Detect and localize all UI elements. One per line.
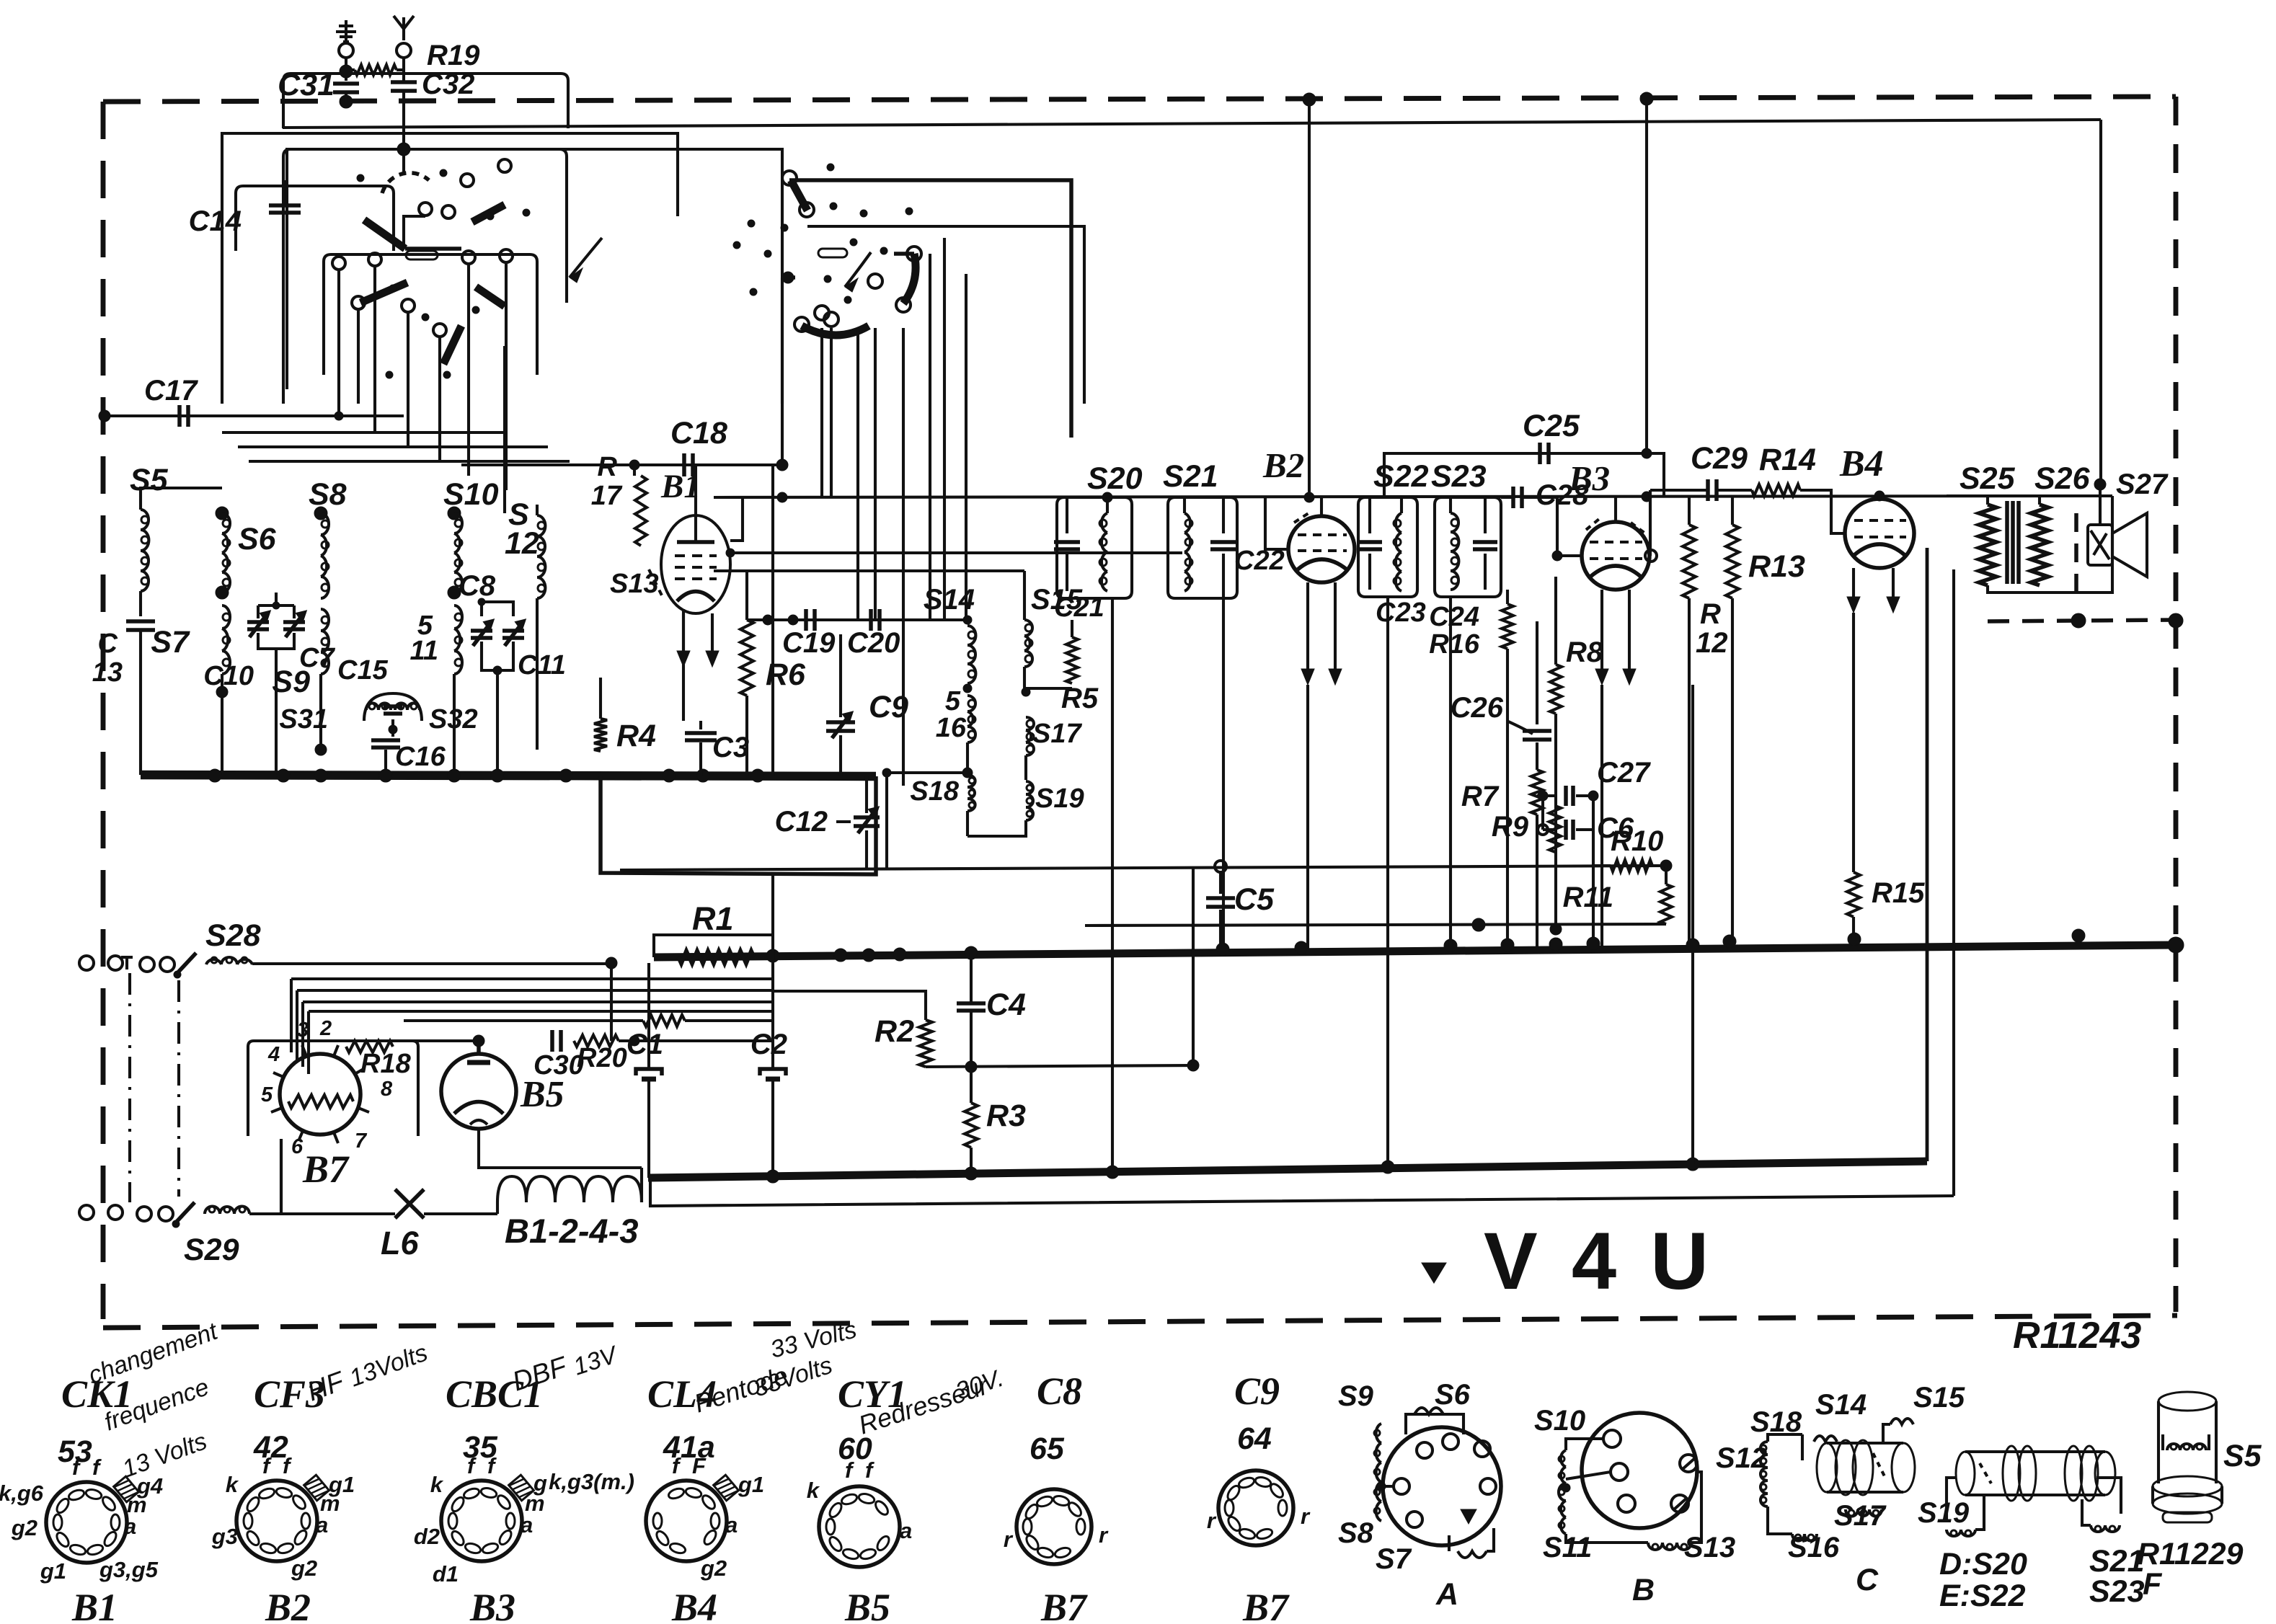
- svg-text:C9: C9: [1234, 1370, 1280, 1413]
- svg-text:8: 8: [381, 1078, 393, 1101]
- switch 2 left stub: [782, 275, 795, 280]
- coil S15: [1025, 624, 1032, 631]
- junction: [448, 769, 461, 782]
- resistor R18: [346, 1041, 393, 1052]
- capacitor C30: [550, 1030, 554, 1052]
- svg-text:C20: C20: [847, 627, 900, 659]
- svg-text:d2: d2: [414, 1524, 440, 1549]
- trimmer C12: [854, 815, 880, 820]
- wire grid bias row: [663, 980, 773, 1002]
- B2 top dashes: [1294, 513, 1309, 523]
- wire y645 with C18: [461, 463, 782, 466]
- svg-text:a: a: [124, 1514, 136, 1539]
- svg-text:B: B: [1632, 1573, 1655, 1607]
- svg-text:B7: B7: [302, 1148, 350, 1191]
- antenna symbol: [402, 17, 405, 40]
- svg-text:V 4 U: V 4 U: [1484, 1216, 1714, 1306]
- R1 bypass corner: [654, 935, 773, 957]
- svg-text:R16: R16: [1429, 629, 1480, 660]
- wire S21 bottom to B2 grid: [1185, 548, 1265, 598]
- assembly D cylinder: [1956, 1452, 1975, 1495]
- capacitor C24: [1473, 540, 1497, 544]
- coil S5: [139, 497, 142, 510]
- resistor R10: [1611, 860, 1652, 871]
- switch 1 wafer B blades: [360, 283, 407, 303]
- coil S21: [1183, 497, 1186, 513]
- wire R14 to B4 grid: [1800, 490, 1846, 533]
- B3 diag dashes: [1586, 519, 1599, 530]
- bus step down rectangle: [601, 776, 876, 874]
- rotary switch wafer frame: [283, 149, 567, 404]
- svg-text:C11: C11: [518, 650, 566, 680]
- capacitor C5: [1219, 872, 1222, 894]
- svg-text:F: F: [692, 1453, 707, 1478]
- svg-text:R10: R10: [1611, 825, 1663, 857]
- wire bundle right verticals: [610, 964, 613, 1041]
- svg-text:S10: S10: [1534, 1405, 1585, 1437]
- svg-text:g2: g2: [700, 1556, 727, 1581]
- svg-text:R11243: R11243: [2013, 1315, 2141, 1357]
- coil S28: [211, 957, 217, 963]
- junction dot at C31 top: [340, 65, 353, 78]
- svg-text:S6: S6: [1435, 1379, 1471, 1411]
- B7 internal heater zigzag: [288, 1095, 353, 1108]
- assembly D left coil hang: [1947, 1478, 1957, 1519]
- junction: [696, 769, 709, 782]
- resistor R3: [965, 1103, 978, 1148]
- switch 1 rotor arc: [382, 173, 429, 193]
- coil S14: [963, 616, 972, 624]
- capacitor C19: [804, 609, 808, 631]
- wire switch outputs to coil rows: [337, 404, 340, 416]
- svg-text:S6: S6: [238, 522, 277, 556]
- S21 box: [1168, 497, 1237, 598]
- wire antenna terminal to C32: [402, 58, 405, 82]
- svg-text:C15: C15: [337, 655, 389, 685]
- tube B1 pentode: [661, 515, 730, 613]
- capacitor C18: [682, 453, 686, 476]
- coil S20: [1106, 497, 1109, 513]
- wire y792 B1 grid2: [714, 569, 1024, 572]
- wire y1336 to right: [252, 962, 1954, 964]
- svg-text:41a: 41a: [663, 1430, 715, 1465]
- svg-text:S20: S20: [1087, 461, 1143, 496]
- assembly B left coil: [1559, 1456, 1564, 1462]
- svg-text:B7: B7: [1040, 1586, 1088, 1624]
- assembly D dashes: [1980, 1463, 1991, 1483]
- dashed chassis border left: [101, 102, 106, 1319]
- svg-text:2: 2: [319, 1017, 332, 1040]
- svg-text:C8: C8: [1037, 1370, 1082, 1413]
- capacitor C16: [371, 738, 400, 742]
- junction dot C31 bottom on dashed border: [340, 95, 353, 108]
- B7 socket frame: [248, 1041, 418, 1136]
- resistor R12: [1688, 497, 1691, 525]
- svg-text:g2: g2: [11, 1515, 37, 1540]
- resistor R1: [678, 951, 754, 964]
- wire S18 feed: [902, 771, 905, 786]
- assembly C cylinder body: [1817, 1443, 1837, 1492]
- wire R5 S15 bottom join: [1024, 667, 1072, 688]
- dashed chassis border top: [103, 97, 2176, 102]
- bus end dot right: [2168, 937, 2184, 953]
- resistor R2: [919, 1020, 932, 1067]
- resistor R17: [633, 465, 636, 476]
- thick ground bus upper: [141, 775, 876, 776]
- trimmer C7: [283, 620, 305, 624]
- second resistor row y1416: [643, 1015, 685, 1026]
- L6 X symbol: [395, 1189, 424, 1218]
- pointer triangle below border: [1422, 1263, 1446, 1283]
- svg-text:R13: R13: [1748, 549, 1805, 584]
- svg-text:B4: B4: [1839, 443, 1884, 484]
- vertical from top border x2284: [1645, 99, 1648, 453]
- wire ground terminal to C31: [345, 58, 347, 81]
- speaker: [2088, 525, 2112, 565]
- svg-text:R: R: [598, 452, 618, 482]
- trimmer C10 arrow pair: [247, 620, 269, 624]
- transformer bottom wires: [1988, 496, 2112, 593]
- B4 cathode arrows: [1852, 568, 1855, 601]
- svg-text:r: r: [1004, 1527, 1014, 1552]
- svg-text:a: a: [725, 1512, 738, 1538]
- wire S9 bottom: [319, 692, 322, 750]
- switch 1 arrow: [570, 238, 602, 278]
- wire antenna down into switch: [402, 91, 405, 173]
- junction: [208, 769, 221, 782]
- capacitor C25: [1538, 443, 1542, 464]
- svg-text:S29: S29: [184, 1233, 239, 1267]
- transformer top frame: [1947, 494, 2112, 497]
- capacitor C31: [333, 81, 359, 86]
- svg-text:B1-2-4-3: B1-2-4-3: [505, 1212, 638, 1250]
- svg-text:R11: R11: [1563, 882, 1613, 913]
- wire y1282: [1085, 924, 1666, 926]
- svg-text:S31: S31: [279, 704, 328, 735]
- coil S12: [536, 505, 539, 515]
- switch 1 upper wafer box: [236, 186, 394, 251]
- tube B3: [1582, 522, 1650, 590]
- coil S23: [1449, 497, 1452, 513]
- capacitor C2 electrolytic: [760, 1069, 786, 1075]
- svg-text:R9: R9: [1492, 811, 1529, 843]
- switch 1 wafer B outline: [324, 254, 537, 375]
- resistor R9: [1549, 806, 1561, 852]
- assembly A pins: [1417, 1442, 1433, 1458]
- wire nest y205: [287, 149, 782, 465]
- bus junctions: [766, 949, 779, 962]
- wire B7 frame bottom to L6: [281, 1139, 497, 1214]
- thick bus B+ R1 line: [654, 945, 2176, 957]
- assembly A wires: [1381, 1485, 1394, 1488]
- wire R2 bottom row y1480: [926, 1065, 1193, 1067]
- coil S8: [314, 507, 327, 520]
- B3 cathode arrows: [1600, 590, 1603, 673]
- assembly C S16 coil bottom left: [1795, 1535, 1801, 1540]
- assembly D right coil hang: [2096, 1478, 2121, 1514]
- dash-dot alignment lines: [128, 973, 131, 1202]
- svg-text:g2: g2: [291, 1556, 317, 1581]
- svg-text:C29: C29: [1691, 441, 1748, 476]
- junction: [314, 769, 327, 782]
- B5 top junction: [473, 1035, 484, 1047]
- svg-text:S15: S15: [1913, 1382, 1965, 1414]
- capacitor C14: [269, 203, 301, 208]
- wire nest top-left horizontal y185: [222, 133, 678, 404]
- svg-text:a: a: [521, 1512, 533, 1538]
- capacitor C23: [1358, 540, 1382, 544]
- capacitor C13: [126, 619, 155, 624]
- B2 cathode arrows: [1306, 582, 1309, 673]
- coil S17: [1027, 720, 1034, 727]
- coil S19: [1027, 785, 1032, 791]
- resistor R6: [745, 569, 748, 620]
- wire below S7: [221, 674, 223, 775]
- capacitor C20: [869, 609, 873, 631]
- svg-text:S9: S9: [1338, 1380, 1374, 1412]
- svg-text:A: A: [1435, 1577, 1458, 1612]
- switch 2 dots: [827, 164, 834, 171]
- wire x2348 B3 right down: [1691, 685, 1694, 1164]
- resistor R5: [1066, 637, 1078, 683]
- svg-text:R20: R20: [577, 1043, 627, 1073]
- wire heater rows into B7: [303, 1039, 479, 1042]
- svg-text:5: 5: [945, 686, 961, 716]
- junction R7 C27: [1536, 795, 1538, 797]
- svg-text:13: 13: [92, 657, 123, 688]
- svg-text:d1: d1: [433, 1561, 459, 1587]
- junction: [491, 769, 504, 782]
- resistor R19: [346, 68, 355, 71]
- svg-text:S14: S14: [1815, 1389, 1867, 1421]
- S31 S32 trimmer assembly: [364, 693, 422, 721]
- wire x1696 C22 down: [1222, 591, 1225, 949]
- svg-text:k,g6: k,g6: [0, 1481, 44, 1506]
- svg-text:k: k: [807, 1478, 820, 1503]
- svg-text:C25: C25: [1523, 409, 1580, 443]
- tube B4: [1845, 499, 1914, 568]
- svg-text:S8: S8: [1338, 1517, 1374, 1549]
- svg-text:64: 64: [1237, 1421, 1272, 1456]
- wires S16-S18: [966, 742, 969, 771]
- svg-text:a: a: [316, 1512, 328, 1538]
- svg-text:13 Volts: 13 Volts: [119, 1427, 211, 1483]
- switch 1 dots: [357, 174, 364, 182]
- svg-text:11: 11: [410, 636, 438, 666]
- capacitor C26: [1536, 621, 1538, 724]
- power terminals bottom: [79, 1205, 94, 1220]
- assembly F base discs: [2153, 1476, 2222, 1496]
- svg-text:r: r: [1207, 1508, 1217, 1533]
- coil S29: [209, 1207, 215, 1212]
- switch 1 wafer B contacts: [332, 257, 345, 270]
- switch 2 vertical drops: [820, 328, 823, 497]
- switch 1 blade a: [364, 220, 405, 249]
- svg-text:S10: S10: [443, 477, 499, 512]
- wafer boxes S22 S23: [1358, 497, 1417, 597]
- svg-text:S5: S5: [130, 463, 169, 497]
- resistor R14: [1752, 484, 1800, 496]
- svg-text:r: r: [1301, 1504, 1311, 1529]
- assembly F internal coil: [2171, 1444, 2177, 1450]
- svg-text:S17: S17: [1032, 719, 1082, 749]
- svg-text:B3: B3: [469, 1586, 515, 1624]
- capacitor C28: [1511, 487, 1515, 508]
- junction: [559, 769, 572, 782]
- resistor R7: [1531, 770, 1543, 815]
- svg-text:S19: S19: [1035, 784, 1084, 814]
- dashed speaker field link: [2074, 513, 2078, 591]
- svg-text:g3: g3: [211, 1524, 238, 1549]
- wire y1205: [620, 866, 1664, 870]
- wire S18 bottom / S19 bottom loop: [966, 811, 969, 836]
- wire x1072 down: [771, 465, 774, 776]
- svg-text:C23: C23: [1376, 598, 1426, 628]
- wire x2012 down: [1449, 597, 1452, 946]
- capacitor C17: [177, 405, 182, 427]
- svg-text:S25: S25: [1960, 461, 2016, 496]
- wires C10 C7: [257, 605, 260, 618]
- svg-text:E:S22: E:S22: [1939, 1579, 2026, 1613]
- svg-text:C4: C4: [986, 988, 1026, 1022]
- svg-text:S23: S23: [2089, 1574, 2145, 1609]
- svg-text:S7: S7: [1376, 1543, 1412, 1575]
- wire row y577 C17: [105, 414, 404, 417]
- assembly B wires: [1566, 1439, 1603, 1450]
- assembly C S15 coil top: [1890, 1419, 1913, 1424]
- switch 2 slot: [818, 249, 847, 257]
- svg-text:17: 17: [591, 481, 623, 511]
- svg-text:4: 4: [267, 1043, 280, 1066]
- capacitor C32: [391, 80, 417, 84]
- svg-text:S9: S9: [272, 665, 310, 699]
- svg-text:S23: S23: [1431, 459, 1487, 494]
- wire S20 col down: [1111, 598, 1114, 1172]
- transformer core: [2005, 501, 2009, 584]
- assembly A bottom coil: [1458, 1551, 1487, 1558]
- capacitor C22: [1210, 540, 1236, 544]
- svg-text:16: 16: [936, 713, 967, 743]
- svg-text:f: f: [92, 1455, 102, 1480]
- svg-text:R19: R19: [427, 40, 480, 71]
- assembly C left coil: [1761, 1445, 1766, 1451]
- svg-text:33Volts: 33Volts: [750, 1352, 836, 1403]
- switch 2 contacts: [907, 247, 921, 261]
- svg-text:B1: B1: [71, 1586, 118, 1624]
- resistor R13: [1731, 497, 1734, 525]
- svg-text:S18: S18: [910, 776, 959, 807]
- svg-text:B2: B2: [1262, 445, 1304, 485]
- svg-text:C19: C19: [782, 627, 836, 659]
- switch 1 wafer B dots: [389, 285, 397, 292]
- svg-text:C14: C14: [189, 205, 242, 237]
- dashed chassis border bottom: [103, 1315, 2177, 1328]
- wire S22 col down: [1386, 597, 1389, 1167]
- svg-text:B2: B2: [265, 1586, 311, 1624]
- svg-text:6: 6: [291, 1135, 304, 1158]
- wire S12 col down: [536, 620, 539, 750]
- speaker hatch: [2091, 531, 2109, 559]
- tube B5: [441, 1054, 516, 1129]
- svg-text:k: k: [430, 1472, 444, 1497]
- switch 2 curved arrow: [845, 252, 871, 287]
- wire S5 top: [141, 488, 222, 497]
- coil S16: [968, 700, 975, 707]
- wire C25 loop: [1384, 453, 1664, 497]
- svg-text:R8: R8: [1566, 636, 1603, 668]
- coil S22: [1400, 497, 1403, 513]
- svg-text:13V: 13V: [570, 1341, 622, 1381]
- svg-text:C5: C5: [1234, 882, 1275, 917]
- svg-text:S7: S7: [151, 625, 190, 660]
- power terminals top: [79, 956, 94, 970]
- coil assembly A circle: [1383, 1427, 1501, 1545]
- svg-text:F: F: [2143, 1567, 2163, 1602]
- svg-text:C12: C12: [775, 806, 828, 838]
- resistor R20: [574, 1035, 619, 1047]
- long verticals through middle: [840, 789, 841, 955]
- assembly A left coil: [1374, 1430, 1380, 1436]
- svg-text:B3: B3: [1568, 458, 1610, 498]
- svg-text:C24: C24: [1429, 602, 1479, 632]
- svg-text:R1: R1: [692, 900, 734, 937]
- resistor R16: [1502, 604, 1513, 649]
- capacitor C21: [1054, 540, 1080, 544]
- svg-text:S14: S14: [924, 584, 975, 616]
- svg-text:B4: B4: [671, 1586, 717, 1624]
- assembly C small coil S14: [1814, 1436, 1837, 1442]
- resistor R15: [1847, 872, 1860, 917]
- heater filament scallops B1-2-4-3: [497, 1176, 642, 1202]
- B3 grid left wire: [1557, 497, 1582, 556]
- svg-text:13Volts: 13Volts: [346, 1339, 431, 1392]
- switch 2 blade top: [791, 180, 807, 210]
- wire B5 bottom: [479, 1129, 642, 1168]
- svg-text:C3: C3: [712, 732, 749, 763]
- trimmer C9: [826, 720, 855, 724]
- svg-text:S26: S26: [2034, 461, 2091, 496]
- svg-text:D:S20: D:S20: [1939, 1547, 2027, 1581]
- svg-text:R11229: R11229: [2137, 1537, 2244, 1571]
- svg-text:R15: R15: [1872, 877, 1925, 909]
- resistor R4: [594, 719, 607, 751]
- svg-text:C17: C17: [144, 375, 198, 407]
- svg-text:g1: g1: [40, 1558, 66, 1584]
- svg-text:C8: C8: [459, 570, 496, 602]
- svg-text:S11: S11: [1543, 1532, 1592, 1563]
- switch 1 output drops: [337, 270, 340, 404]
- switch 1 contact rings: [461, 174, 474, 187]
- B7 pin stubs: [334, 1045, 338, 1056]
- inner solid border right vertical: [2099, 120, 2102, 484]
- junction: [379, 769, 392, 782]
- svg-text:B5: B5: [844, 1586, 890, 1624]
- svg-text:r: r: [1099, 1522, 1109, 1548]
- coil S18: [969, 778, 975, 784]
- assembly A top coil: [1414, 1408, 1443, 1414]
- box around C31 C32: [283, 74, 568, 128]
- switch 2 short link: [894, 252, 914, 256]
- svg-text:B7: B7: [1242, 1586, 1290, 1624]
- wires around C8 C11: [482, 602, 513, 616]
- assembly F cylinder: [2158, 1392, 2216, 1411]
- svg-text:C27: C27: [1597, 757, 1651, 789]
- svg-text:R14: R14: [1759, 443, 1816, 477]
- wire rows below switch1: [222, 431, 505, 434]
- svg-text:S5: S5: [2223, 1439, 2262, 1473]
- heater wire bundle: [291, 977, 774, 980]
- svg-text:12: 12: [1696, 627, 1728, 659]
